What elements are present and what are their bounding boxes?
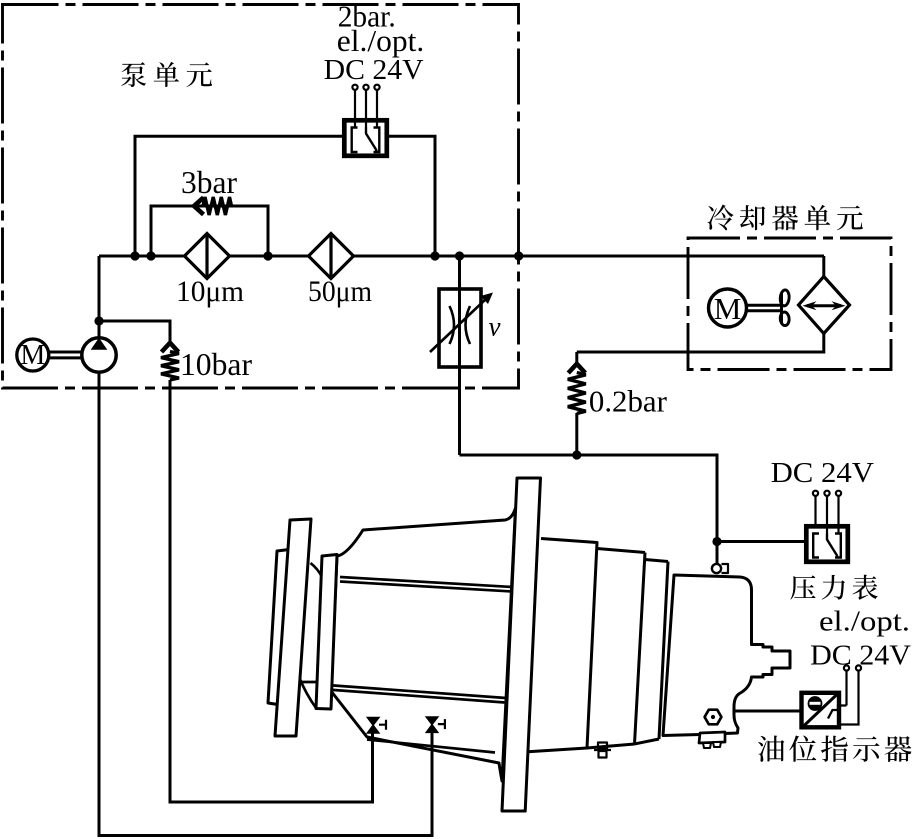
svg-text:el./opt.: el./opt. xyxy=(337,23,425,58)
pressure switch S1 2bar (box) xyxy=(344,120,387,156)
wire: 3bar bypass loop xyxy=(151,206,268,256)
relief spring 3bar (left arrow + zigzag) xyxy=(194,198,204,215)
drain plug under cylinder 2 xyxy=(594,743,611,758)
drain valve V2 (filled bowtie with handle) xyxy=(426,717,445,733)
svg-text:DC 24V: DC 24V xyxy=(771,457,874,489)
housing skirt between flanges xyxy=(300,678,317,708)
terminal pins xyxy=(352,85,379,128)
fan propeller blades xyxy=(780,290,790,326)
motor M1 (electric motor circle) xyxy=(17,339,49,371)
node: 2bar branch right xyxy=(430,251,439,260)
wire: to pressure switch S2 xyxy=(717,540,804,543)
svg-text:50μm: 50μm xyxy=(308,275,372,308)
flow control valve (rect, arcs, arrow) xyxy=(439,289,481,367)
ring section 3 xyxy=(635,560,669,745)
svg-text:10bar: 10bar xyxy=(180,346,252,382)
svg-text:0.2bar: 0.2bar xyxy=(589,383,668,418)
svg-text:M: M xyxy=(20,340,45,371)
wire: return manifold xyxy=(460,455,718,542)
cylinder section 2 xyxy=(587,549,645,749)
node: flow valve branch xyxy=(455,251,464,260)
node: return junction xyxy=(572,450,581,459)
wire: riser into diamond xyxy=(822,256,825,277)
cooler unit enclosure (dashed box) xyxy=(688,238,891,370)
node: 3bar branch left xyxy=(146,251,155,260)
mounting foot xyxy=(699,732,725,743)
wire: diamond to return line xyxy=(577,333,824,352)
terminal pins xyxy=(813,491,841,534)
breather fitting on top xyxy=(712,564,721,573)
label 泵单元 (pump unit) xyxy=(121,62,212,87)
wire: 2bar switch left lead xyxy=(135,136,342,256)
main flange D xyxy=(502,478,541,811)
gear case body xyxy=(663,575,790,736)
fan shaft (double line) xyxy=(748,305,781,311)
cone housing body xyxy=(331,508,516,781)
node: pump box edge xyxy=(514,251,523,260)
drain valve V1 (filled bowtie with handle) xyxy=(367,718,386,734)
node: junction pump riser / 10bar branch xyxy=(94,316,103,325)
cone bottom rib (double line) xyxy=(327,685,506,703)
label 压力表 (pressure gauge) xyxy=(790,575,877,600)
check valve 0.2bar (arrow + spring) xyxy=(575,352,578,364)
switch contact symbol xyxy=(352,128,380,153)
pressure switch S2 (box) xyxy=(806,526,848,562)
wire: pump riser xyxy=(98,256,101,338)
pump P1 (circle with up triangle) xyxy=(82,338,116,372)
svg-text:3bar: 3bar xyxy=(181,164,237,200)
wire: branch to 10bar valve xyxy=(99,321,170,343)
oil level indicator box xyxy=(802,693,840,728)
filter F1 10um (diamond with vertical element) xyxy=(185,234,230,279)
label 油位指示器 (oil level indicator) xyxy=(758,736,912,762)
coupling flange A xyxy=(268,550,289,706)
coupling flange B xyxy=(275,519,311,736)
cylinder section 1 xyxy=(524,539,597,753)
wire: indicator to gearbox port xyxy=(734,710,801,713)
node: gauge branch xyxy=(712,537,721,546)
inner flange C xyxy=(316,555,337,710)
svg-text:v: v xyxy=(489,311,501,341)
relief valve 10bar (arrow + spring) xyxy=(162,343,179,352)
filter F2 50um (diamond with vertical element) xyxy=(309,234,354,279)
pump unit enclosure (dashed box) xyxy=(3,5,519,389)
shaft coupling (double line) xyxy=(50,352,82,358)
cone lower rib diagonal xyxy=(367,740,495,753)
gearbox technical drawing xyxy=(268,478,790,811)
level switch contact xyxy=(828,706,847,719)
svg-text:10μm: 10μm xyxy=(176,275,244,308)
oil port hex fitting xyxy=(705,710,722,725)
wire: flow valve branch down xyxy=(458,256,461,455)
wire: pump suction loop (outer) xyxy=(99,372,432,835)
motor M2 (fan motor) xyxy=(709,289,747,327)
svg-text:DC 24V: DC 24V xyxy=(324,54,424,86)
wire: down to gearbox port xyxy=(716,542,719,565)
wire: 10bar drain loop (inner) xyxy=(170,388,373,802)
node: 2bar branch left xyxy=(130,251,139,260)
label 冷却器单元 (cooler unit) xyxy=(708,205,863,231)
hub neck between flanges xyxy=(300,563,322,682)
cone top rib (double line) xyxy=(340,577,512,592)
svg-text:el./opt.: el./opt. xyxy=(819,607,910,638)
theta symbol (filled circle with slot) xyxy=(808,696,823,711)
diagonal divider xyxy=(801,692,840,729)
heat exchanger (diamond, double arrow) xyxy=(799,277,850,334)
terminal pins xyxy=(840,665,862,724)
node: 3bar branch right xyxy=(263,251,272,260)
svg-text:M: M xyxy=(714,291,742,326)
wire: 2bar switch right lead xyxy=(389,136,435,256)
wire: main supply line xyxy=(99,255,824,258)
